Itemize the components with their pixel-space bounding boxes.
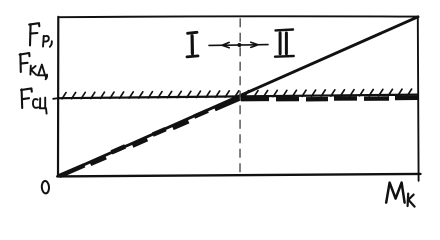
- origin 0: [41, 181, 49, 194]
- y-axis: [57, 17, 59, 177]
- label Fkd,: [20, 53, 47, 79]
- hatch marks: [62, 89, 412, 99]
- right border: [417, 17, 420, 181]
- label Fsc: [21, 88, 47, 113]
- x-axis: [57, 174, 420, 177]
- label II: [275, 30, 294, 57]
- thick dashed diagonal: [60, 98, 241, 176]
- label Fp,: [29, 23, 52, 47]
- label Mk: [386, 183, 414, 207]
- label I: [187, 32, 198, 57]
- thick dashed horizontal: [241, 98, 419, 100]
- friction level line (hatched): [58, 95, 418, 99]
- vertical dashed line: [239, 18, 241, 175]
- double arrow: [209, 42, 268, 48]
- tick on y-axis at Fsc level: [53, 97, 58, 100]
- diagonal solid line: [59, 17, 419, 176]
- top border: [58, 15, 418, 18]
